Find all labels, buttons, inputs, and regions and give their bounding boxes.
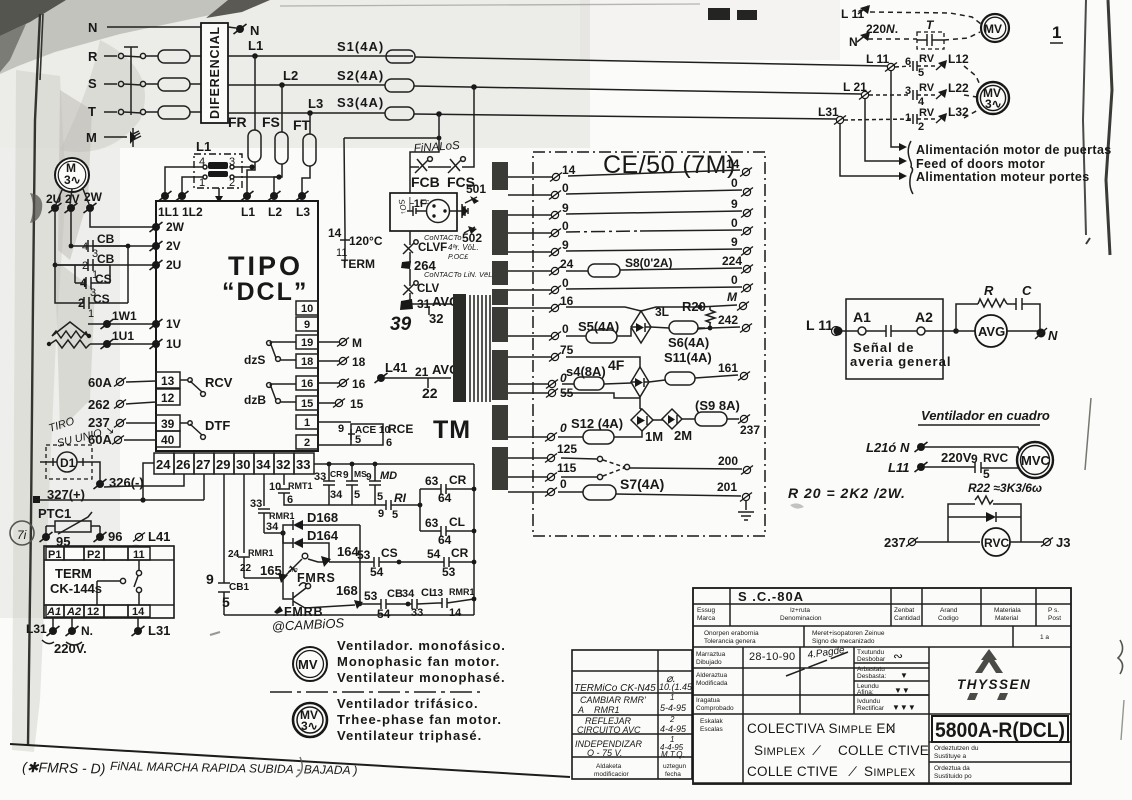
svg-text:A2: A2 [66, 606, 81, 618]
TERM top cells [44, 559, 174, 561]
svg-text:Escalas: Escalas [700, 726, 724, 733]
svg-text:CS: CS [93, 292, 110, 306]
svg-text:RCE: RCE [388, 422, 413, 436]
row 0b dashdot [508, 232, 551, 234]
svg-text:CB: CB [97, 252, 115, 266]
svg-text:L 11: L 11 [806, 317, 833, 333]
A2 lead [71, 617, 73, 628]
svg-text:COLLE CTIVE: COLLE CTIVE [838, 743, 929, 758]
svg-text:2W: 2W [166, 220, 185, 234]
left pin 2U [150, 260, 163, 270]
pin2 wire to RCE bottom [318, 444, 351, 446]
svg-text:9: 9 [343, 470, 349, 481]
svg-text:64: 64 [438, 491, 452, 505]
1M bridge [631, 409, 653, 431]
FMRB column [283, 578, 293, 599]
svg-text:COLECTIVA SIMPLE EN: COLECTIVA SIMPLE EN [747, 721, 896, 736]
right pin boxes column [296, 301, 318, 315]
svg-text:10: 10 [269, 481, 281, 493]
TM secondary bar 4 [492, 289, 508, 305]
contact 9 MS 5 [350, 462, 355, 467]
node FS-choke [276, 174, 281, 179]
svg-text:S8(0'2A): S8(0'2A) [625, 256, 673, 270]
svg-text:L31: L31 [148, 623, 170, 638]
svg-text:220N.: 220N. [866, 22, 898, 36]
svg-text:18: 18 [352, 355, 366, 369]
pin15 output 15 [318, 402, 335, 404]
svg-text:0: 0 [731, 176, 738, 190]
svg-text:26: 26 [176, 457, 190, 472]
svg-text:Señal de: Señal de [853, 340, 914, 355]
contact 33 CR 34 [327, 462, 332, 467]
svg-text:9: 9 [562, 238, 569, 252]
svg-text:22: 22 [422, 385, 438, 401]
N connector [1037, 329, 1046, 338]
svg-text:5: 5 [377, 491, 383, 503]
contact 63 CL 64 bottom [420, 526, 474, 536]
row 14 [508, 176, 553, 178]
fuse S [158, 78, 190, 91]
svg-text:Aldaketa: Aldaketa [596, 763, 622, 770]
svg-text:CR: CR [449, 473, 467, 487]
pin30 drop [243, 474, 245, 553]
J3 connector [1041, 538, 1053, 547]
svg-text:S7(4A): S7(4A) [620, 476, 664, 492]
svg-text:Ordeztua da: Ordeztua da [934, 765, 970, 772]
wire L1 row [228, 55, 413, 57]
svg-text:CS: CS [95, 272, 112, 286]
svg-text:COLLE CTIVE: COLLE CTIVE [747, 764, 838, 779]
top rail from pin33 [314, 463, 474, 465]
svg-text:CL: CL [449, 515, 465, 529]
svg-text:Dibujado: Dibujado [696, 659, 722, 666]
svg-text:0: 0 [562, 181, 569, 195]
svg-text:A1: A1 [46, 606, 61, 618]
pin16 output 16 [318, 382, 339, 384]
drop L31 to arrow3 [840, 124, 899, 176]
link to 2M [653, 419, 663, 421]
row2 cells [693, 588, 1071, 626]
svg-text:RV: RV [919, 107, 935, 119]
thyssen logo [975, 652, 1003, 673]
svg-text:9: 9 [206, 571, 214, 587]
svg-text:19: 19 [301, 337, 313, 349]
node 168 [354, 600, 363, 609]
svg-text:4: 4 [199, 156, 205, 168]
bottom pin boxes [154, 453, 174, 474]
mid finish col [854, 663, 929, 695]
contact 13 RMR1 14 [438, 598, 474, 608]
resistor triangle network [52, 322, 88, 338]
svg-text:N: N [250, 23, 259, 38]
svg-text:262: 262 [88, 397, 110, 412]
row 0a [508, 194, 551, 196]
svg-text:Cantidad: Cantidad [894, 615, 920, 622]
ground right of socket [450, 204, 468, 218]
svg-text:1: 1 [905, 112, 911, 124]
svg-text:P2: P2 [87, 549, 100, 561]
svg-text:32: 32 [429, 311, 443, 326]
svg-text:RCV: RCV [205, 375, 233, 390]
svg-text:2: 2 [82, 260, 88, 272]
svg-text:2: 2 [918, 121, 924, 133]
wire L11 to cap [925, 466, 975, 468]
svg-text:M: M [352, 336, 362, 350]
svg-text:0: 0 [731, 216, 738, 230]
svg-text:Alimentation moteur portes: Alimentation moteur portes [916, 170, 1090, 184]
wire L3 node down to FT [309, 113, 311, 134]
svg-text:24: 24 [560, 257, 574, 271]
svg-text:modificacior: modificacior [594, 771, 630, 778]
svg-text:SIMPLEX: SIMPLEX [754, 743, 806, 758]
svg-text:53: 53 [364, 589, 378, 603]
501 arrow connector [470, 196, 479, 204]
svg-text:Ventilador trifásico.: Ventilador trifásico. [337, 696, 479, 711]
svg-text:Tolerancia genera: Tolerancia genera [704, 638, 756, 645]
svg-text:14: 14 [726, 157, 740, 171]
svg-text:2U: 2U [166, 258, 181, 272]
svg-text:242: 242 [718, 313, 738, 327]
R22 resistor+diode loop [948, 504, 1021, 517]
svg-text:(S9 8A): (S9 8A) [695, 398, 740, 413]
svg-text:29: 29 [216, 457, 230, 472]
svg-text:326(-): 326(-) [109, 475, 144, 490]
svg-text:L 11: L 11 [866, 52, 889, 66]
svg-text:TERM: TERM [341, 257, 375, 271]
svg-text:dzB: dzB [244, 393, 266, 407]
dashed wire N to T cap [868, 38, 917, 40]
wire L2 node down to FS [281, 85, 283, 132]
svg-text:RMR1: RMR1 [269, 511, 295, 521]
svg-text:CoNTACTo LiN. VēL: CoNTACTo LiN. VēL [424, 270, 492, 279]
svg-text:40: 40 [161, 433, 175, 447]
FCS drop wire [462, 87, 474, 167]
svg-text:63: 63 [425, 474, 439, 488]
svg-text:34: 34 [330, 489, 343, 501]
svg-text:L41: L41 [385, 360, 407, 375]
svg-text:fecha: fecha [665, 771, 681, 778]
row 75 [508, 356, 551, 358]
svg-text:53: 53 [357, 548, 371, 562]
svg-text:RVC: RVC [984, 536, 1009, 550]
svg-text:Denominacion: Denominacion [780, 615, 822, 622]
T capacitor dashed box [917, 32, 944, 49]
21 AVG wire [385, 377, 451, 379]
L12 connector [938, 60, 947, 69]
svg-text:P s.: P s. [1048, 607, 1059, 614]
svg-text:Iragatua: Iragatua [696, 697, 720, 704]
choke pins [203, 165, 207, 169]
264 connector blob [401, 261, 411, 269]
svg-text:15: 15 [301, 398, 313, 410]
2M bridge [662, 409, 682, 429]
95 connector [40, 532, 53, 542]
wire S stub [104, 83, 117, 85]
row 115 [508, 476, 548, 478]
svg-text:CR: CR [451, 546, 469, 560]
D1 circle [57, 452, 77, 472]
svg-text:60A: 60A [88, 375, 112, 390]
svg-text:S5(4A): S5(4A) [578, 319, 619, 334]
FMRB label [274, 606, 283, 614]
svg-text:1V: 1V [166, 317, 181, 331]
left pin boxes 39 40 [156, 415, 180, 431]
MV3 motor circle [977, 82, 1009, 114]
svg-text:FR: FR [228, 114, 247, 130]
wire 237 to RVC [916, 517, 980, 542]
svg-text:Ivdundu: Ivdundu [857, 698, 881, 705]
svg-text:Post: Post [1048, 615, 1061, 622]
node CB right [126, 244, 131, 249]
diode junction node [264, 532, 283, 534]
TM core hatching [470, 295, 490, 402]
M ground symbol [133, 128, 141, 147]
row 0c [508, 289, 551, 291]
left border line [28, 14, 40, 745]
TM secondary bar 3 [492, 261, 508, 285]
svg-text:Alimentación motor de puertas: Alimentación motor de puertas [916, 143, 1112, 157]
svg-text:RMR1: RMR1 [248, 548, 274, 558]
node 327-24 [140, 497, 145, 502]
svg-text:RI: RI [394, 491, 407, 505]
31 AVG junction blob [400, 299, 413, 310]
svg-text:2: 2 [304, 437, 310, 449]
svg-text:Ventilador en cuadro: Ventilador en cuadro [921, 408, 1050, 423]
left pin 2W [150, 222, 163, 232]
drop L21 to arrow2 [865, 99, 899, 161]
svg-text:THYSSEN: THYSSEN [957, 677, 1031, 692]
svg-text:D168: D168 [307, 510, 338, 525]
svg-text:∾: ∾ [893, 649, 903, 663]
L41 connector mid [375, 373, 388, 383]
svg-text:Zenbat: Zenbat [894, 607, 914, 614]
fuse T [158, 106, 190, 119]
motor M3 circle [55, 158, 89, 192]
326 connector [94, 479, 107, 489]
svg-text:R: R [88, 49, 98, 64]
svg-text:CLVF: CLVF [418, 242, 447, 254]
TM secondary bar 1 [492, 162, 508, 190]
svg-text:0: 0 [560, 477, 567, 491]
svg-text:A RMR1: A RMR1 [577, 705, 620, 715]
breaker contact T [118, 109, 123, 114]
svg-text:S2(4A): S2(4A) [337, 68, 384, 83]
wire into box [842, 330, 858, 332]
svg-text:O - 75 V.: O - 75 V. [587, 748, 622, 758]
small blob left edge [30, 193, 42, 223]
svg-text:2: 2 [669, 715, 675, 724]
svg-text:54: 54 [377, 607, 391, 621]
svg-text:21: 21 [415, 365, 429, 379]
node 164 [308, 559, 327, 562]
pin24 drop [143, 463, 154, 500]
svg-text:0: 0 [560, 421, 567, 435]
contact 53 CB 54 [360, 599, 408, 609]
svg-text:Onorpen erabornia: Onorpen erabornia [704, 630, 759, 637]
svg-text:237: 237 [884, 535, 906, 550]
svg-text:501: 501 [466, 182, 486, 196]
svg-text:dzS: dzS [244, 353, 265, 367]
D1 dashed box [46, 445, 92, 479]
svg-text:Ventilateur triphasé.: Ventilateur triphasé. [337, 728, 482, 743]
node S3-FCB [436, 111, 442, 117]
svg-text:9: 9 [366, 472, 372, 483]
svg-text:M: M [727, 290, 738, 304]
wire L21 to MVC [925, 447, 1020, 452]
svg-text:Arbastatu: Arbastatu [857, 666, 885, 673]
MV motor circle [981, 14, 1009, 42]
svg-text:33: 33 [314, 471, 326, 483]
svg-text:9: 9 [378, 508, 384, 520]
dark dashes top middle [708, 8, 730, 20]
svg-text:201: 201 [717, 480, 737, 494]
svg-text:0: 0 [562, 276, 569, 290]
svg-text:Ordeztutzen du: Ordeztutzen du [934, 745, 979, 752]
averia box [846, 299, 943, 379]
wire to 200 [630, 468, 742, 469]
dashed wire T to MV [944, 32, 980, 40]
node L3 [307, 110, 313, 116]
svg-text:96: 96 [108, 529, 122, 544]
svg-text:M: M [86, 130, 97, 145]
RCE coil box [351, 424, 383, 445]
scan gray band left side [12, 70, 66, 752]
row 0 S7 201 [508, 491, 548, 493]
svg-text:53: 53 [442, 565, 456, 579]
svg-text:4: 4 [82, 241, 88, 253]
AVG coil circle [956, 330, 976, 332]
svg-text:MVC: MVC [1021, 453, 1051, 468]
svg-text:15: 15 [350, 397, 364, 411]
svg-text:34: 34 [402, 588, 415, 600]
svg-text:L3: L3 [296, 205, 310, 219]
svg-text:1L1 1L2: 1L1 1L2 [158, 205, 203, 219]
svg-text:224: 224 [722, 254, 742, 268]
pin19 output M [318, 341, 339, 343]
breaker tie bar [124, 47, 138, 115]
svg-text:14: 14 [449, 607, 462, 619]
svg-text:L31: L31 [26, 622, 47, 636]
CLVF contact [403, 240, 414, 262]
wire socket down [409, 231, 411, 240]
node on 2U [53, 263, 58, 268]
choke L1 dash-dot box [194, 154, 242, 188]
svg-text:165: 165 [260, 563, 282, 578]
pin18 output 18 [318, 360, 339, 362]
svg-text:RV: RV [919, 53, 935, 65]
row 9a [508, 214, 551, 216]
svg-text:▼▼: ▼▼ [894, 686, 910, 695]
svg-text:5: 5 [222, 594, 230, 610]
svg-text:Modificada: Modificada [696, 680, 728, 687]
N output connector [228, 27, 236, 28]
svg-text:N: N [88, 20, 97, 35]
svg-text:4ªr. VōL.: 4ªr. VōL. [448, 243, 479, 252]
breaker contact S [118, 81, 123, 86]
paper tone bands [0, 0, 590, 148]
svg-text:54: 54 [427, 547, 441, 561]
svg-text:FS: FS [262, 114, 280, 130]
svg-text:Trhee-phase fan motor.: Trhee-phase fan motor. [337, 712, 502, 727]
bottom border line [10, 744, 570, 777]
svg-text:1U: 1U [166, 337, 181, 351]
cs4 left drop [74, 265, 76, 283]
svg-text:D164: D164 [307, 528, 339, 543]
node FR-choke [249, 164, 254, 169]
row 16 bridge3L [508, 307, 551, 309]
switch DTF [180, 423, 202, 435]
TERM internal switch [97, 581, 120, 605]
svg-text:30: 30 [236, 457, 250, 472]
svg-text:(✱FMRS - D): (✱FMRS - D) [22, 759, 106, 776]
fuse FS vertical [275, 132, 288, 164]
sustituye cells [929, 742, 1071, 762]
svg-text:6: 6 [386, 437, 392, 449]
svg-text:D1: D1 [60, 456, 76, 470]
327 connector [33, 496, 40, 503]
wire choke3 to FR node [234, 166, 252, 168]
L31 out connector [132, 626, 145, 636]
svg-text:N: N [1048, 328, 1058, 343]
svg-text:33: 33 [250, 498, 262, 510]
fuse R [158, 50, 190, 63]
svg-text:4-4-95: 4-4-95 [660, 724, 687, 734]
M out row [698, 305, 703, 310]
svg-text:0: 0 [731, 273, 738, 287]
wire FS to DCL L2 [274, 164, 282, 193]
row 0 S5(4A) [508, 335, 551, 337]
svg-text:6: 6 [287, 494, 293, 506]
svg-text:S6(4A): S6(4A) [668, 335, 709, 350]
CLV contact [403, 269, 414, 307]
svg-text:S3(4A): S3(4A) [337, 95, 384, 110]
svg-text:33: 33 [296, 457, 310, 472]
svg-text:S1(4A): S1(4A) [337, 39, 384, 54]
wire choke2 to FS node [234, 176, 279, 178]
socket box [390, 193, 457, 231]
svg-text:DTF: DTF [205, 418, 230, 433]
svg-text:CB: CB [387, 588, 403, 600]
row 0/55 s4(8A) 4F [508, 383, 548, 385]
svg-text:CIRCUITO AVC: CIRCUITO AVC [577, 725, 641, 735]
svg-text:33: 33 [411, 607, 423, 619]
wire S2 long to L21 [414, 86, 861, 94]
svg-text:12: 12 [161, 391, 175, 405]
svg-text:RV: RV [919, 82, 935, 94]
svg-text:Iz+ruta: Iz+ruta [790, 607, 810, 614]
row 9b [508, 251, 551, 253]
wire S1 long to L11 [415, 57, 887, 66]
contact 9 MD 5 [373, 462, 378, 467]
svg-text:16: 16 [352, 377, 366, 391]
svg-text:Eskalak: Eskalak [700, 718, 724, 725]
svg-text:9: 9 [731, 235, 738, 249]
svg-text:▼▼▼: ▼▼▼ [892, 703, 916, 712]
svg-text:AVG: AVG [978, 324, 1005, 339]
svg-text:CoNTACTo: CoNTACTo [424, 233, 462, 242]
table bottom edge [693, 782, 1071, 784]
svg-text:RMT1: RMT1 [288, 481, 313, 491]
svg-text:16: 16 [560, 294, 574, 308]
FCB drop wire [410, 114, 439, 193]
svg-text:0: 0 [562, 219, 569, 233]
svg-text:L1: L1 [196, 139, 211, 154]
svg-text:MV: MV [298, 657, 318, 672]
pin34 drop [263, 474, 265, 506]
svg-text:1: 1 [88, 308, 94, 320]
svg-text:TERMiCo CK-N45: TERMiCo CK-N45 [574, 683, 656, 694]
row1 SC-80A [693, 588, 1071, 604]
